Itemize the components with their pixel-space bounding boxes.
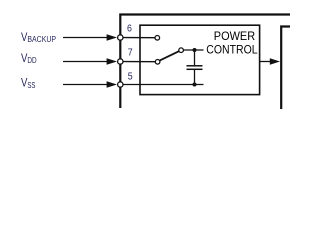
- arrowhead output into right block: [270, 58, 280, 64]
- wire node A down to capacitor C1: [194, 50, 196, 65]
- wire power control output: [260, 61, 271, 63]
- junction node A: [193, 48, 197, 52]
- switch S1 throw2 contact circle: [155, 60, 160, 65]
- wire pin5 VSS bus: [120, 84, 203, 86]
- switch S1 lever: [160, 51, 179, 60]
- capacitor C1 bottom plate: [187, 68, 203, 70]
- svg-text:CONTROL: CONTROL: [206, 43, 257, 57]
- svg-text:VSS: VSS: [21, 78, 36, 90]
- svg-text:7: 7: [128, 47, 133, 58]
- pin 7 terminal circle: [118, 59, 123, 64]
- svg-text:6: 6: [127, 23, 132, 34]
- pin 5 terminal circle: [118, 82, 123, 87]
- junction node B on VSS bus: [193, 83, 197, 87]
- wire VBACKUP input: [63, 37, 108, 39]
- svg-text:5: 5: [128, 71, 133, 82]
- capacitor C1 top plate: [187, 65, 203, 67]
- svg-text:VDD: VDD: [21, 53, 37, 65]
- power control block U1 box: [140, 25, 260, 94]
- switch S1 throw1 contact circle: [155, 36, 160, 41]
- arrowhead VSS into pin 5: [107, 81, 117, 87]
- svg-text:VBACKUP: VBACKUP: [21, 32, 56, 44]
- wire pole to node A: [183, 49, 203, 51]
- wire VDD input: [63, 61, 108, 63]
- wire pin6 to switch throw1: [120, 37, 155, 39]
- wire capacitor C1 to VSS bus: [194, 69, 196, 84]
- svg-text:POWER: POWER: [214, 29, 255, 43]
- switch S1 pole circle: [179, 48, 184, 53]
- wire VSS input: [63, 84, 108, 86]
- arrowhead VDD into pin 7: [107, 58, 117, 64]
- right block outline (top edge and left edge): [281, 27, 290, 110]
- pin 6 terminal circle: [118, 35, 123, 40]
- chip outline (top edge and left edge): [120, 15, 290, 109]
- arrowhead VBACKUP into pin 6: [107, 34, 117, 40]
- wire pin7 to switch throw2: [120, 61, 155, 63]
